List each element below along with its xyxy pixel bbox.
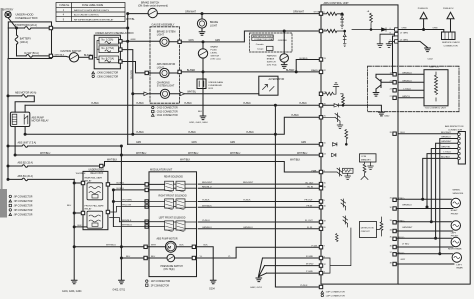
svg-text:FUSE/RELAY BOX: FUSE/RELAY BOX	[16, 16, 38, 20]
svg-text:9: 9	[324, 200, 325, 202]
svg-text:GRN/RED: GRN/RED	[278, 40, 288, 42]
svg-text:GRN: GRN	[215, 40, 220, 42]
svg-text:RIGHT FRONT SOLENOID: RIGHT FRONT SOLENOID	[159, 196, 187, 198]
svg-text:COM: COM	[361, 156, 366, 158]
svg-text:36: 36	[390, 245, 392, 247]
svg-text:BLK/YEL: BLK/YEL	[84, 55, 94, 57]
svg-text:No. 9 (7.5A): No. 9 (7.5A)	[102, 57, 115, 60]
svg-text:25: 25	[324, 116, 326, 118]
svg-text:RELAY: RELAY	[85, 179, 93, 182]
svg-text:BLU: BLU	[67, 205, 72, 207]
svg-text:: 9P CONNECTOR: : 9P CONNECTOR	[13, 214, 33, 216]
svg-text:ORN: ORN	[402, 28, 407, 30]
svg-text:PGM-ECU: PGM-ECU	[443, 8, 454, 10]
svg-text:BLU: BLU	[151, 256, 156, 258]
svg-text:YL/BLK: YL/BLK	[184, 103, 192, 105]
svg-text:MEMORY: MEMORY	[361, 160, 371, 162]
svg-text:WHT/BLK: WHT/BLK	[202, 205, 212, 207]
svg-text:TCS CONTROL UNIT: TCS CONTROL UNIT	[425, 108, 447, 110]
svg-text:RIGHT: RIGHT	[451, 210, 458, 212]
svg-text:BATTERY: BATTERY	[3, 8, 14, 11]
svg-text:BLK/YEL: BLK/YEL	[130, 71, 132, 81]
svg-text:YL/BLK: YL/BLK	[91, 103, 99, 105]
svg-text:2: 2	[324, 12, 325, 14]
svg-text:GRN/YL: GRN/YL	[402, 96, 411, 98]
svg-text:WHT/BLK: WHT/BLK	[107, 159, 118, 161]
svg-text:BL/RED: BL/RED	[300, 58, 308, 60]
svg-text:ABS UNIT (7.5 A): ABS UNIT (7.5 A)	[18, 142, 37, 145]
svg-text:28: 28	[390, 132, 392, 134]
svg-text:LEFT: LEFT	[457, 264, 463, 266]
svg-text:LIGHT: LIGHT	[157, 66, 165, 69]
svg-text:FUSE LABEL NAME: FUSE LABEL NAME	[82, 4, 104, 7]
svg-text:: 9P CONNECTOR: : 9P CONNECTOR	[13, 196, 33, 198]
svg-text:PGM-ECU: PGM-ECU	[418, 8, 429, 10]
svg-text:37: 37	[390, 252, 392, 254]
svg-text:7: 7	[324, 246, 325, 248]
svg-text:WHT/BL: WHT/BL	[126, 19, 135, 21]
svg-text:MODULATOR UNIT: MODULATOR UNIT	[150, 169, 173, 172]
svg-text:SWITCH: SWITCH	[267, 62, 276, 64]
svg-text:YL/BLK: YL/BLK	[202, 200, 210, 202]
svg-text:FRONT: FRONT	[451, 236, 459, 238]
svg-text:RL IN: RL IN	[308, 186, 314, 188]
svg-text:CIRCUIT: CIRCUIT	[361, 231, 371, 233]
svg-text:GAUGE ASSEMBLY: GAUGE ASSEMBLY	[152, 23, 175, 26]
svg-text:10: 10	[324, 206, 326, 208]
svg-text:PMR: PMR	[312, 170, 317, 172]
svg-text:PARKING: PARKING	[267, 55, 277, 58]
svg-text:4: 4	[324, 256, 325, 258]
svg-text:CONNECTOR: CONNECTOR	[448, 129, 462, 131]
svg-text:ALTERNATOR: ALTERNATOR	[269, 78, 285, 81]
svg-text:33: 33	[390, 220, 392, 222]
svg-text:Coupe: Coupe	[257, 49, 264, 51]
svg-text:WHT/BLK: WHT/BLK	[76, 173, 86, 175]
svg-text:BLU: BLU	[126, 256, 131, 258]
svg-text:G204: G204	[209, 289, 215, 291]
svg-text:BL/BLU: BL/BLU	[117, 188, 125, 190]
svg-text:RL OUT: RL OUT	[306, 182, 315, 184]
svg-text:PNK/+: PNK/+	[399, 220, 406, 222]
svg-text:: C410 CONNECTOR: : C410 CONNECTOR	[156, 108, 179, 110]
svg-text:FR IN: FR IN	[307, 206, 313, 208]
svg-text:WARN: WARN	[311, 69, 318, 72]
svg-text:24: 24	[324, 153, 326, 155]
svg-text:LT GRN: LT GRN	[400, 32, 408, 34]
svg-text:: 9P CONNECTOR: : 9P CONNECTOR	[13, 210, 33, 212]
svg-text:YL/BLK: YL/BLK	[243, 200, 251, 202]
svg-text:IG SW (50 A): IG SW (50 A)	[24, 52, 39, 55]
svg-text:REAR SOLENOID: REAR SOLENOID	[164, 176, 183, 179]
svg-text:LEFT FRONT SOLENOID: LEFT FRONT SOLENOID	[159, 218, 186, 220]
svg-text:WHT/BL: WHT/BL	[187, 92, 196, 94]
svg-text:STOP/HORN (20 A): STOP/HORN (20 A)	[15, 24, 37, 27]
svg-text:31: 31	[390, 198, 392, 200]
svg-text:With TCS: With TCS	[430, 65, 440, 68]
svg-text:WHT/BLK: WHT/BLK	[290, 159, 301, 161]
svg-text:GRN/BLU: GRN/BLU	[402, 80, 412, 82]
svg-text:ABS CONTROL UNIT: ABS CONTROL UNIT	[324, 1, 350, 5]
svg-text:ABS B2 (15 A): ABS B2 (15 A)	[18, 162, 34, 165]
svg-text:15: 15	[324, 182, 326, 184]
svg-text:ABS MOTOR (40 A): ABS MOTOR (40 A)	[15, 91, 37, 94]
svg-text:BLK: BLK	[204, 245, 209, 247]
svg-text:BLK: BLK	[180, 245, 185, 247]
svg-text:: 14P CONNECTOR: : 14P CONNECTOR	[150, 281, 171, 283]
svg-text:13: 13	[324, 58, 326, 60]
svg-text:: 18P CONNECTOR: : 18P CONNECTOR	[325, 292, 345, 294]
svg-text:GRN: GRN	[136, 142, 141, 144]
svg-text:LEFT: LEFT	[451, 233, 457, 235]
svg-text:1: 1	[324, 170, 325, 172]
svg-text:WHT: WHT	[151, 245, 157, 247]
svg-text:DETECTION: DETECTION	[361, 228, 374, 230]
svg-text:WHT/BLU: WHT/BLU	[230, 153, 241, 155]
svg-text:GRN: GRN	[131, 39, 136, 41]
svg-text:Canada: Canada	[256, 44, 264, 46]
svg-text:RED/WHT: RED/WHT	[202, 182, 213, 184]
svg-text:SENSORS: SENSORS	[453, 193, 464, 195]
svg-text:C402: C402	[428, 58, 434, 60]
svg-text:RIGHT REAR: RIGHT REAR	[448, 248, 462, 251]
svg-text:(ON: High): (ON: High)	[164, 269, 175, 271]
svg-text:UNDER-HOOD: UNDER-HOOD	[16, 13, 34, 17]
svg-text:GRN/WHT: GRN/WHT	[441, 141, 452, 143]
svg-text:GRN/BLU: GRN/BLU	[402, 72, 412, 74]
svg-text:FRONT FAIL-SAFE: FRONT FAIL-SAFE	[85, 205, 105, 208]
svg-text:RELAY BOX: RELAY BOX	[91, 172, 104, 175]
svg-text:GRN/WHT: GRN/WHT	[402, 227, 413, 229]
svg-text:ORN: ORN	[433, 27, 438, 29]
svg-text:LT BLU: LT BLU	[444, 152, 452, 154]
svg-text:No. 4 (7.5A): No. 4 (7.5A)	[102, 47, 115, 50]
svg-text:YL/BLU: YL/BLU	[202, 220, 210, 222]
svg-text:5: 5	[390, 40, 391, 42]
svg-text:UNDER-DASH FUSE/RELAY BOX: UNDER-DASH FUSE/RELAY BOX	[95, 32, 134, 35]
svg-text:RR WIPER REAR DEFROSTER RELAY: RR WIPER REAR DEFROSTER RELAY	[74, 18, 114, 21]
svg-text:UNDER-DASH: UNDER-DASH	[89, 169, 105, 172]
svg-text:18: 18	[324, 29, 326, 31]
svg-text:ABS PUMP MOTOR: ABS PUMP MOTOR	[157, 237, 178, 240]
svg-text:LT BLU: LT BLU	[402, 243, 410, 245]
svg-text:No. 1 (15A): No. 1 (15A)	[102, 39, 114, 42]
svg-text:BLK: BLK	[198, 111, 203, 113]
svg-text:YL/BLK: YL/BLK	[291, 115, 299, 117]
svg-text:FLUID: FLUID	[211, 49, 218, 51]
svg-text:RED/BLU: RED/BLU	[202, 186, 212, 188]
svg-text:GRN: GRN	[189, 40, 194, 42]
svg-text:P SW: P SW	[312, 245, 318, 247]
svg-text:RED/WHT: RED/WHT	[243, 182, 254, 184]
svg-text:: C906 CONNECTOR: : C906 CONNECTOR	[96, 76, 119, 78]
svg-text:FRONT: FRONT	[451, 213, 459, 215]
svg-text:GRN: GRN	[230, 142, 235, 144]
svg-text:GRY: GRY	[401, 259, 406, 261]
svg-text:YL/BLK: YL/BLK	[136, 132, 144, 134]
svg-text:3: 3	[324, 271, 325, 273]
svg-text:LIGHT: LIGHT	[210, 25, 218, 28]
svg-text:IGNITION SWITCH: IGNITION SWITCH	[61, 50, 82, 53]
svg-text:G402, G701: G402, G701	[250, 287, 263, 289]
svg-text:BACK-UP LIGHTS METER LIGHTS: BACK-UP LIGHTS METER LIGHTS	[74, 9, 110, 12]
svg-text:G101, G401, G404: G101, G401, G404	[62, 291, 82, 293]
svg-text:BL/BLU: BL/BLU	[117, 182, 125, 184]
svg-text:WHT/BLU: WHT/BLU	[106, 245, 116, 247]
svg-text:WHT/BLK: WHT/BLK	[55, 55, 65, 57]
svg-text:WHT/BLK: WHT/BLK	[180, 159, 191, 161]
svg-text:19: 19	[324, 220, 326, 222]
svg-text:WHEEL: WHEEL	[453, 189, 462, 191]
svg-text:(100 A): (100 A)	[20, 41, 28, 44]
svg-text:YL/BLK: YL/BLK	[299, 103, 307, 105]
svg-text:GRN: GRN	[301, 142, 306, 144]
svg-text:14: 14	[390, 73, 392, 75]
svg-text:SYSTEM LIGHT: SYSTEM LIGHT	[157, 85, 175, 88]
svg-text:35: 35	[390, 237, 392, 239]
svg-text:11: 11	[324, 143, 326, 145]
svg-text:YL/BLK: YL/BLK	[188, 132, 196, 134]
svg-text:P GND: P GND	[306, 271, 313, 273]
svg-text:YL/BLK: YL/BLK	[136, 103, 144, 105]
svg-text:BL/RED: BL/RED	[187, 70, 196, 72]
svg-text:UNDER-DASH: UNDER-DASH	[209, 81, 224, 84]
svg-text:BRAKE: BRAKE	[211, 45, 219, 48]
svg-text:: 9P CONNECTOR: : 9P CONNECTOR	[13, 205, 33, 207]
svg-text:32: 32	[390, 207, 392, 209]
svg-text:BRAKE: BRAKE	[267, 58, 275, 61]
svg-text:BL/RED: BL/RED	[286, 70, 295, 72]
svg-text:(ON: Pull): (ON: Pull)	[267, 65, 277, 67]
svg-text:YL/BLK: YL/BLK	[243, 103, 251, 105]
svg-text:6: 6	[390, 28, 391, 30]
svg-text:20: 20	[324, 227, 326, 229]
svg-text:G402, G701: G402, G701	[113, 289, 126, 291]
svg-text:GRN: GRN	[192, 142, 197, 144]
svg-text:WHT/BLU: WHT/BLU	[136, 153, 147, 155]
svg-text:FUSE No.: FUSE No.	[60, 5, 71, 7]
svg-text:CONNECTOR (USA): CONNECTOR (USA)	[254, 38, 273, 41]
svg-text:G402: G402	[384, 116, 390, 118]
svg-text:: C914 CONNECTOR: : C914 CONNECTOR	[156, 115, 179, 117]
svg-text:GRN/BLU: GRN/BLU	[402, 204, 412, 206]
svg-text:ACG CRUISE CONTROL: ACG CRUISE CONTROL	[74, 14, 100, 17]
svg-text:BLU/BLK: BLU/BLK	[441, 156, 451, 158]
svg-text:38: 38	[390, 262, 392, 264]
svg-text:: C910 CONNECTOR: : C910 CONNECTOR	[156, 111, 179, 113]
svg-text:LEVEL: LEVEL	[211, 52, 219, 54]
svg-text:FUSE/RELAY: FUSE/RELAY	[209, 84, 223, 87]
svg-text:REAR FAIL-SAFE: REAR FAIL-SAFE	[85, 176, 103, 179]
svg-text:RELAY: RELAY	[85, 208, 93, 211]
svg-text:GRN/WHT: GRN/WHT	[293, 11, 305, 13]
svg-text:8: 8	[390, 33, 391, 35]
svg-text:WHT/BLU: WHT/BLU	[297, 153, 308, 155]
svg-text:YL/BLK: YL/BLK	[246, 132, 254, 134]
svg-text:34: 34	[390, 229, 392, 231]
svg-text:PNK/+: PNK/+	[399, 198, 406, 200]
svg-text:23: 23	[390, 89, 392, 91]
svg-text:: 2P CONNECTOR: : 2P CONNECTOR	[150, 285, 170, 287]
svg-text:12: 12	[324, 264, 326, 266]
svg-text:21: 21	[390, 81, 392, 83]
svg-text:(ON: Low): (ON: Low)	[211, 58, 221, 60]
svg-text:26: 26	[324, 104, 326, 106]
svg-text:MOTOR RELAY: MOTOR RELAY	[32, 120, 50, 123]
svg-text:WHT/BLU: WHT/BLU	[40, 153, 51, 155]
svg-text:PRESSURE SWITCH: PRESSURE SWITCH	[161, 266, 184, 268]
svg-text:BLU/+: BLU/+	[399, 237, 406, 239]
svg-text:LT GRN: LT GRN	[400, 40, 408, 42]
svg-text:LT BLU: LT BLU	[404, 88, 412, 90]
svg-text:WHT/BLU: WHT/BLU	[188, 153, 199, 155]
svg-text:17: 17	[324, 92, 326, 94]
svg-text:(ON: Brake pedal depressed): (ON: Brake pedal depressed)	[138, 5, 168, 8]
svg-text:FL OUT: FL OUT	[305, 220, 313, 222]
svg-text:M GND: M GND	[306, 264, 314, 266]
svg-text:GRN/BLU: GRN/BLU	[202, 227, 212, 229]
svg-text:16: 16	[324, 187, 326, 189]
svg-text:SERVICE CHECK: SERVICE CHECK	[442, 42, 460, 44]
svg-text:: C406 CONNECTOR: : C406 CONNECTOR	[96, 73, 119, 75]
svg-text:GRN/WHT: GRN/WHT	[185, 11, 197, 13]
svg-text:BLU: BLU	[401, 132, 406, 134]
svg-text:GRN/YEL: GRN/YEL	[441, 146, 451, 148]
svg-text:FL IN: FL IN	[307, 227, 313, 229]
svg-text:: 22P CONNECTOR: : 22P CONNECTOR	[325, 296, 345, 298]
svg-text:BRAKE SWITCH: BRAKE SWITCH	[141, 1, 159, 4]
svg-text:FR OUT: FR OUT	[305, 200, 314, 202]
svg-text:CONNECTOR: CONNECTOR	[444, 45, 458, 47]
svg-text:BOX: BOX	[209, 88, 214, 90]
svg-text:SWITCH: SWITCH	[211, 55, 220, 57]
svg-text:27: 27	[390, 96, 392, 98]
svg-text:22: 22	[324, 70, 326, 72]
svg-text:ABS INSPECTION: ABS INSPECTION	[445, 125, 464, 128]
svg-text:: 9P CONNECTOR: : 9P CONNECTOR	[13, 201, 33, 203]
svg-text:LIGHT: LIGHT	[157, 33, 165, 36]
svg-text:BLK: BLK	[78, 225, 83, 227]
svg-text:GRN/BLU: GRN/BLU	[243, 227, 253, 229]
svg-text:BLU/WHT: BLU/WHT	[441, 132, 452, 134]
svg-text:ABS SERVICE CHECK: ABS SERVICE CHECK	[253, 35, 275, 38]
svg-text:YL/BLK: YL/BLK	[300, 285, 308, 287]
svg-text:R GND: R GND	[306, 256, 313, 258]
svg-text:REAR: REAR	[457, 266, 463, 269]
svg-text:ABS B1 (20 A): ABS B1 (20 A)	[18, 175, 34, 178]
svg-text:BLU/+: BLU/+	[399, 252, 406, 254]
svg-text:GRN/BLU: GRN/BLU	[441, 136, 451, 138]
svg-text:G201, G401, G404: G201, G401, G404	[189, 122, 208, 124]
